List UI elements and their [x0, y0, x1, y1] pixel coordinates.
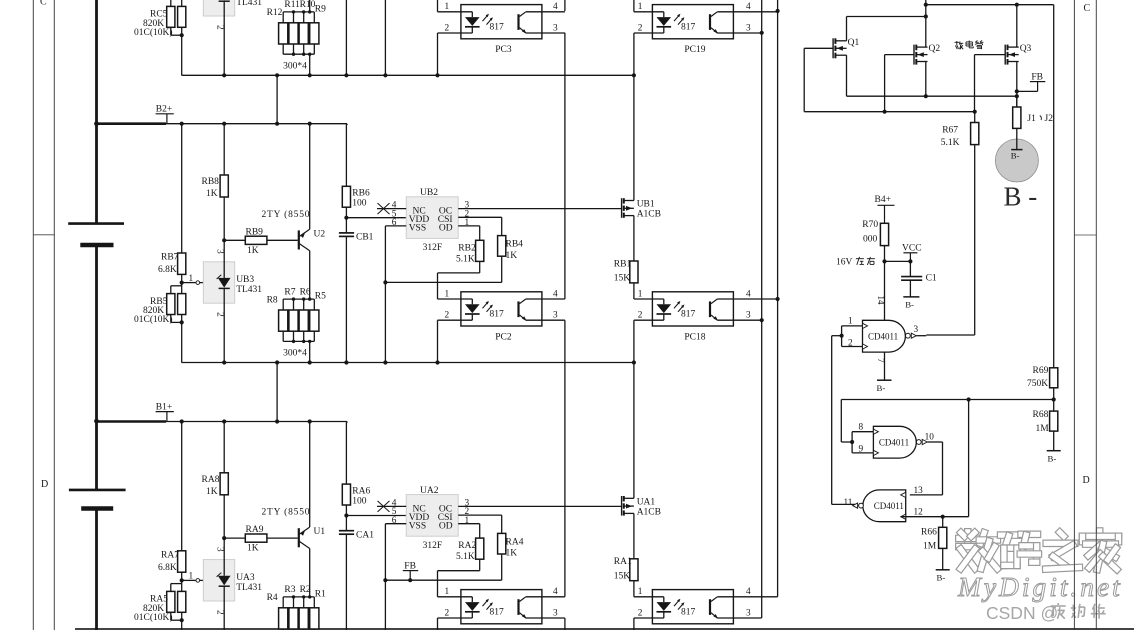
PC1 pin 1 wire — [438, 596, 473, 598]
svg-text:01C(10K): 01C(10K) — [134, 612, 173, 623]
svg-text:R67: R67 — [942, 125, 958, 135]
gate B input tie vertical — [851, 432, 853, 453]
svg-text:1: 1 — [638, 587, 643, 597]
B1+ rail thick segment — [97, 420, 167, 423]
junction RB6 / VDD — [344, 216, 348, 220]
cell bottom rail (net B1-link) — [182, 362, 634, 364]
R4 stubs — [282, 597, 284, 608]
UB3 symbol — [218, 278, 231, 288]
gate B output vertical — [942, 442, 944, 495]
UB2 pin 6 wire (VSS) — [385, 225, 406, 227]
battery bus thick vertical top segment — [95, 0, 98, 224]
svg-text:2: 2 — [445, 311, 450, 321]
transistor U1 (2TY 8550) base bar — [298, 528, 300, 547]
RC5 bottom wire — [181, 27, 183, 75]
resistor R1 — [310, 608, 319, 629]
ground B- under R68 — [1047, 450, 1061, 452]
PC2 pin 2 wire — [438, 319, 473, 321]
PC19 phototransistor — [709, 14, 711, 30]
capacitor CB1 top wire — [345, 218, 347, 233]
svg-text:5.1K: 5.1K — [456, 254, 475, 264]
UA1 source stub — [624, 512, 634, 514]
Q1 body arrow — [835, 47, 846, 49]
B1+ rail thin segment — [166, 421, 347, 423]
junction bottom rail / VDD branch — [344, 360, 348, 364]
svg-text:1K: 1K — [206, 487, 218, 497]
svg-text:RA8: RA8 — [202, 475, 220, 485]
UA2 pin 2 wire (CSI) — [458, 514, 502, 516]
Q1 source stub — [835, 54, 846, 56]
svg-text:100: 100 — [352, 199, 367, 209]
svg-text:4: 4 — [553, 587, 558, 597]
resistor RB4 — [498, 236, 506, 257]
junction RB7 / TL431 ref / RB5 — [180, 281, 184, 285]
Q1 drain wire — [846, 17, 848, 41]
RB5 bottom wire — [181, 315, 183, 363]
gate A input pin1 triangle — [863, 323, 868, 328]
svg-text:C1: C1 — [926, 274, 937, 284]
PC3 pin 2 vertical to bottom rail — [437, 33, 439, 75]
svg-text:1K: 1K — [206, 189, 218, 199]
R9 stubs — [313, 12, 315, 23]
svg-text:2: 2 — [638, 23, 643, 33]
svg-text:CA1: CA1 — [356, 530, 374, 540]
PC1 LED emission arrows — [483, 600, 489, 606]
node B4+ tick — [878, 204, 895, 206]
U2 emitter — [299, 229, 310, 237]
RB7 bottom wire — [181, 274, 183, 282]
junction network top rail b — [302, 595, 305, 598]
gate A input tie vertical — [841, 326, 843, 347]
RB2 bottom wire — [479, 261, 481, 273]
optocoupler PC18 body — [652, 292, 733, 326]
PC1 pin 4 wire — [526, 596, 565, 598]
junction pin4 column / PC19 pin 4 — [776, 9, 780, 13]
svg-text:UA2: UA2 — [420, 486, 439, 496]
CB1 bottom wire — [345, 236, 347, 362]
resistor RA5 left jog top — [170, 584, 172, 592]
svg-text:B-: B- — [877, 383, 886, 393]
resistor RB5 (left of pair) — [167, 294, 175, 315]
RC1 bottom wire — [633, 0, 635, 12]
Q2 source wire — [925, 62, 927, 97]
resistor R8 — [279, 310, 288, 331]
R11 stubs — [293, 12, 295, 23]
PC17 pin 2 vertical to bottom rail — [633, 618, 635, 635]
PC3 pin 3 wire — [526, 32, 565, 34]
RB7 top wire — [181, 124, 183, 253]
RA8 top wire — [223, 422, 225, 473]
junction bottom rail / UB3 pin2 — [222, 73, 226, 77]
junction RC5 pair bottom — [180, 33, 184, 37]
gate C output triangle — [853, 503, 858, 508]
svg-text:2: 2 — [445, 23, 450, 33]
MOSFET Q1 gate bar — [832, 38, 834, 58]
svg-text:TL431: TL431 — [236, 583, 262, 593]
resistor RC5 (left of pair) — [167, 6, 175, 27]
PC18 phototransistor — [709, 301, 711, 317]
MOSFET Q2 gate bar — [913, 45, 915, 65]
svg-text:4: 4 — [553, 289, 558, 299]
svg-text:10: 10 — [925, 433, 935, 443]
gate drive left vertical — [803, 48, 805, 111]
CA1 bottom wire — [345, 534, 347, 635]
svg-text:A1CB: A1CB — [637, 507, 661, 517]
Q2 drain wire — [925, 17, 927, 48]
svg-text:3: 3 — [746, 23, 751, 33]
resistor R11 — [289, 23, 298, 44]
resistor RB2 — [476, 240, 484, 261]
UA2 pin 4 no-connect cross — [378, 501, 390, 512]
junction R70 / VCC rail — [882, 259, 886, 263]
svg-text:817: 817 — [490, 607, 505, 617]
svg-text:1K: 1K — [506, 549, 518, 559]
resistor R12 — [279, 23, 288, 44]
junction B1+ rail / RA8 branch — [222, 419, 226, 423]
capacitor CA1 top wire — [345, 516, 347, 531]
frame tick left C/D — [33, 234, 54, 236]
J1 J2 bottom wire — [1016, 128, 1018, 149]
svg-text:TL431: TL431 — [236, 0, 262, 8]
RA6 bottom wire — [345, 505, 347, 516]
frame border right inner — [1073, 0, 1075, 630]
svg-text:FB: FB — [1031, 72, 1043, 82]
node FB tick (right) — [1030, 81, 1045, 83]
PC17 pin 4 wire — [717, 596, 777, 598]
gate A output triangle — [911, 333, 916, 338]
svg-text:817: 817 — [490, 22, 505, 32]
source rail horizontal — [847, 95, 1017, 97]
PC19 pin 4 wire — [717, 11, 777, 13]
junction bottom rail / resistor network — [308, 73, 312, 77]
R7 stubs — [293, 299, 295, 310]
UA2 pin 1 wire (OD) — [458, 523, 480, 525]
PC17 LED — [663, 597, 665, 602]
svg-text:1K: 1K — [247, 544, 259, 554]
junction network top rail c — [308, 10, 311, 13]
junction source rail / Q3 source column — [1015, 94, 1019, 98]
resistor RC5 left jog top — [170, 0, 172, 6]
PC18 pin 1 wire — [634, 298, 664, 300]
VSS vertical — [384, 226, 386, 283]
svg-text:R69: R69 — [1033, 366, 1049, 376]
RB8 bottom wire — [223, 197, 225, 240]
RA2 top wire — [479, 524, 481, 538]
svg-text:817: 817 — [681, 607, 696, 617]
pin12 net vertical to feedback rail — [968, 400, 970, 517]
svg-text:CB1: CB1 — [356, 233, 374, 243]
junction bottom rail / resistor network — [308, 360, 312, 364]
NAND gate CD4011 gate B body — [873, 426, 916, 458]
RB5 left jog bottom — [170, 315, 172, 323]
junction network bottom rail b — [302, 53, 305, 56]
PC19 pin 2 vertical to bottom rail — [633, 33, 635, 75]
svg-text:U2: U2 — [314, 229, 326, 239]
UA1 body arrow — [624, 505, 634, 507]
resistor RA5 (right of pair) — [178, 591, 186, 612]
RB4 bottom wire — [501, 256, 503, 282]
svg-text:B-: B- — [1011, 150, 1020, 160]
RB4 top wire — [501, 217, 503, 235]
resistor RA4 — [498, 533, 506, 554]
resistor R69 — [1050, 368, 1058, 388]
junction gate rail / Q3 gate / R67 — [973, 110, 977, 114]
U1 collector — [299, 541, 310, 549]
IC UB2 body — [406, 197, 458, 239]
label 放电管 (discharge tubes) — [956, 41, 958, 45]
resistor RC5 (right of pair) — [178, 6, 186, 27]
svg-text:UB3: UB3 — [236, 275, 254, 285]
svg-text:3: 3 — [553, 23, 558, 33]
Q3 channel bar — [1007, 45, 1009, 51]
RA1 bottom wire — [633, 581, 635, 597]
feedback vertical (gate A in to gate C pin 11) — [831, 336, 833, 505]
resistor R3 — [289, 608, 298, 629]
resistor R70 — [880, 223, 888, 245]
PC1 pin 3 wire — [526, 617, 565, 619]
IC UA2 body — [406, 495, 458, 537]
svg-text:1M: 1M — [1036, 424, 1050, 434]
svg-text:3: 3 — [746, 608, 751, 618]
Q3 gate vertical — [974, 55, 976, 112]
gate A inputs to feedback — [832, 335, 842, 337]
gate B inputs feed — [841, 441, 852, 443]
output column pin3 net vertical — [761, 0, 763, 618]
svg-text:RB7: RB7 — [161, 253, 179, 263]
svg-text:UB2: UB2 — [420, 188, 438, 198]
B2+ rail thick segment — [97, 122, 167, 125]
UA1 drain stub — [624, 497, 634, 499]
series chain column segment d (PC1 pin3 down) — [564, 618, 566, 630]
PC2 pin 1 wire — [438, 298, 473, 300]
gate B pin9 wire — [852, 452, 873, 454]
junction network bottom rail b — [302, 340, 305, 343]
RA7 bottom wire — [181, 572, 183, 580]
PC19 LED emission arrows — [674, 15, 680, 21]
junction gate rail / Q2 gate — [883, 110, 887, 114]
junction bottom rail / opto pin2 — [435, 73, 439, 77]
junction top rail / Q3 drain — [1015, 3, 1019, 7]
svg-text:15K: 15K — [614, 571, 631, 581]
svg-text:7: 7 — [876, 358, 886, 363]
RA5 feed wire — [181, 580, 183, 591]
optocoupler PC3 body — [461, 5, 542, 39]
junction RB5 pair bottom — [180, 320, 184, 324]
UA3 symbol — [218, 576, 231, 586]
Q3 gate wire — [975, 54, 1006, 56]
battery B2 negative plate — [80, 243, 113, 248]
PC17 phototransistor — [709, 599, 711, 615]
resistor RB7 — [178, 253, 186, 274]
gate B input pin9 triangle — [873, 450, 878, 455]
junction B2+ rail / RB7 branch — [180, 122, 184, 126]
PC18 pin 2 wire — [634, 319, 664, 321]
PC19 pin 2 wire — [634, 32, 664, 34]
optocoupler PC19 body — [652, 5, 733, 39]
svg-text:RA4: RA4 — [506, 537, 524, 547]
MOSFET UA1 channel bar — [623, 496, 625, 501]
feedback drop to gate B inputs — [840, 400, 842, 443]
junction pin3 column / PC19 pin 3 — [760, 31, 764, 35]
UC3 symbol — [218, 0, 231, 1]
UA1 drain wire up — [633, 363, 635, 499]
junction network bottom rail a — [292, 340, 295, 343]
resistor R68 — [1050, 411, 1058, 431]
svg-text:3: 3 — [553, 311, 558, 321]
Q2 source stub — [916, 61, 927, 63]
R10 stubs — [303, 12, 305, 23]
RA4 bottom wire — [501, 554, 503, 580]
PC1 LED — [471, 597, 473, 602]
gate A pin 7 wire — [884, 352, 886, 380]
svg-text:R11: R11 — [284, 0, 300, 10]
junction RA5 pair bottom — [180, 618, 184, 622]
svg-text:R6: R6 — [300, 287, 311, 297]
svg-text:14: 14 — [876, 296, 886, 306]
U1 emitter — [299, 527, 310, 535]
gate A output bubble — [906, 333, 911, 338]
svg-text:B4+: B4+ — [875, 195, 891, 205]
junction B2+ rail / U2 emitter — [308, 122, 312, 126]
R2 stubs — [303, 597, 305, 608]
svg-text:2TY (8550: 2TY (8550 — [262, 507, 310, 518]
svg-text:1K: 1K — [506, 251, 518, 261]
U3 collector wire to network — [309, 0, 311, 12]
ground B- under R66 — [936, 569, 950, 571]
svg-text:1: 1 — [638, 2, 643, 12]
junction bottom rail / inter-cell link — [275, 360, 279, 364]
resistor R66 — [939, 527, 947, 548]
reference rail (VSS-R4) — [385, 579, 501, 581]
battery B2 positive plate — [68, 222, 124, 225]
svg-text:4: 4 — [553, 2, 558, 12]
Q3 source wire — [1016, 62, 1018, 108]
svg-text:R10: R10 — [300, 0, 316, 10]
svg-text:J1: J1 — [1027, 114, 1036, 124]
transistor U2 (2TY 8550) base bar — [298, 230, 300, 249]
svg-text:2: 2 — [215, 25, 225, 30]
svg-text:1: 1 — [189, 572, 194, 582]
resistor RA8 — [220, 473, 228, 495]
PC3 pin 2 wire — [438, 32, 473, 34]
R66 bottom wire — [942, 548, 944, 569]
svg-text:4: 4 — [746, 2, 751, 12]
ground B- under gate A — [877, 379, 892, 381]
top feed vertical — [925, 0, 927, 17]
svg-text:B -: B - — [1004, 182, 1038, 212]
PC2 pin 3 wire — [526, 319, 565, 321]
RB2 path vertical to opto pin 1 — [437, 273, 439, 299]
svg-text:13: 13 — [914, 486, 924, 496]
svg-text:R8: R8 — [267, 295, 278, 305]
R67 bottom wire long — [974, 145, 976, 335]
capacitor CB1 — [339, 232, 354, 234]
junction VSS / bottom reference rail — [383, 280, 387, 284]
frame border right outer — [1095, 0, 1097, 630]
shunt regulator UA3 body — [203, 560, 234, 601]
junction pin 12 / R66 — [941, 515, 945, 519]
gate drive horizontal rail — [804, 111, 975, 113]
shunt regulator UC3 body — [203, 0, 234, 16]
svg-text:1: 1 — [638, 289, 643, 299]
PC17 pin 2 wire — [634, 617, 664, 619]
resistor RA7 — [178, 551, 186, 572]
svg-text:OD: OD — [439, 521, 453, 531]
svg-text:A1CB: A1CB — [637, 210, 661, 220]
svg-text:RA2: RA2 — [458, 541, 476, 551]
R67 top wire — [974, 112, 976, 123]
label 左右 — [856, 258, 864, 260]
MOSFET UB1 channel bar — [623, 198, 625, 203]
MOSFET UA1 gate bar — [621, 496, 623, 516]
RB2 path horizontal — [438, 272, 480, 274]
resistor RA2 — [476, 538, 484, 559]
Q3 source stub — [1008, 61, 1019, 63]
inter-cell link wire (mid cell to B1+ rail) — [276, 363, 278, 422]
svg-text:R5: R5 — [315, 292, 326, 302]
frame border left outer — [32, 0, 34, 630]
svg-text:8: 8 — [859, 423, 864, 433]
VSS vertical to bottom rail — [384, 282, 386, 362]
CC1 bottom wire — [345, 0, 347, 75]
VSS vertical — [384, 524, 386, 581]
junction battery bus / B1+ rail — [94, 419, 99, 424]
PC2 pin 4 wire — [526, 298, 565, 300]
svg-text:U1: U1 — [314, 527, 326, 537]
svg-text:R7: R7 — [284, 287, 295, 297]
svg-text:RB4: RB4 — [506, 240, 524, 250]
junction VCC rail / C1 — [908, 259, 912, 263]
watermark 夜灼华 — [1057, 603, 1059, 605]
cell bottom rail (net B2+) — [182, 74, 634, 76]
svg-text:TL431: TL431 — [236, 285, 262, 295]
U1 emitter wire to rail — [309, 422, 311, 528]
network bottom rail — [283, 340, 314, 342]
svg-text:2: 2 — [638, 608, 643, 618]
gate B output wire — [927, 441, 942, 443]
svg-text:3: 3 — [746, 311, 751, 321]
RA2 bottom wire — [479, 559, 481, 571]
RA4 top wire — [501, 515, 503, 533]
junction RA7 / TL431 ref / RA5 — [180, 578, 184, 582]
junction top rail / feed — [924, 3, 928, 7]
RB5 feed wire — [181, 283, 183, 294]
junction network top rail a — [292, 10, 295, 13]
gate B output bubble — [916, 440, 921, 445]
svg-text:B1+: B1+ — [156, 402, 172, 412]
junction bottom rail / inter-cell link — [275, 73, 279, 77]
network bottom wire to rail — [309, 341, 311, 362]
RB6 bottom wire — [345, 207, 347, 218]
PC1 pin 2 vertical to bottom rail — [437, 618, 439, 635]
battery B1 positive plate — [69, 489, 126, 492]
RB2 top wire — [479, 226, 481, 240]
optocoupler PC1 body — [461, 590, 542, 624]
PC3 LED — [471, 12, 473, 17]
R67 to gate U1 output — [926, 334, 974, 336]
svg-text:817: 817 — [490, 310, 505, 320]
PC17 pin 1 wire — [634, 596, 664, 598]
ground B- under C1 — [903, 296, 919, 298]
svg-text:D: D — [41, 479, 48, 490]
junction RA8 / RA9 / UA3 cathode — [222, 536, 226, 540]
svg-text:4: 4 — [746, 289, 751, 299]
capacitor CA1 — [339, 530, 354, 532]
PC19 pin 3 wire — [717, 32, 761, 34]
junction VSS / bottom reference rail — [383, 578, 387, 582]
PC19 pin 1 wire — [634, 11, 664, 13]
UB1 drain stub — [624, 200, 634, 202]
